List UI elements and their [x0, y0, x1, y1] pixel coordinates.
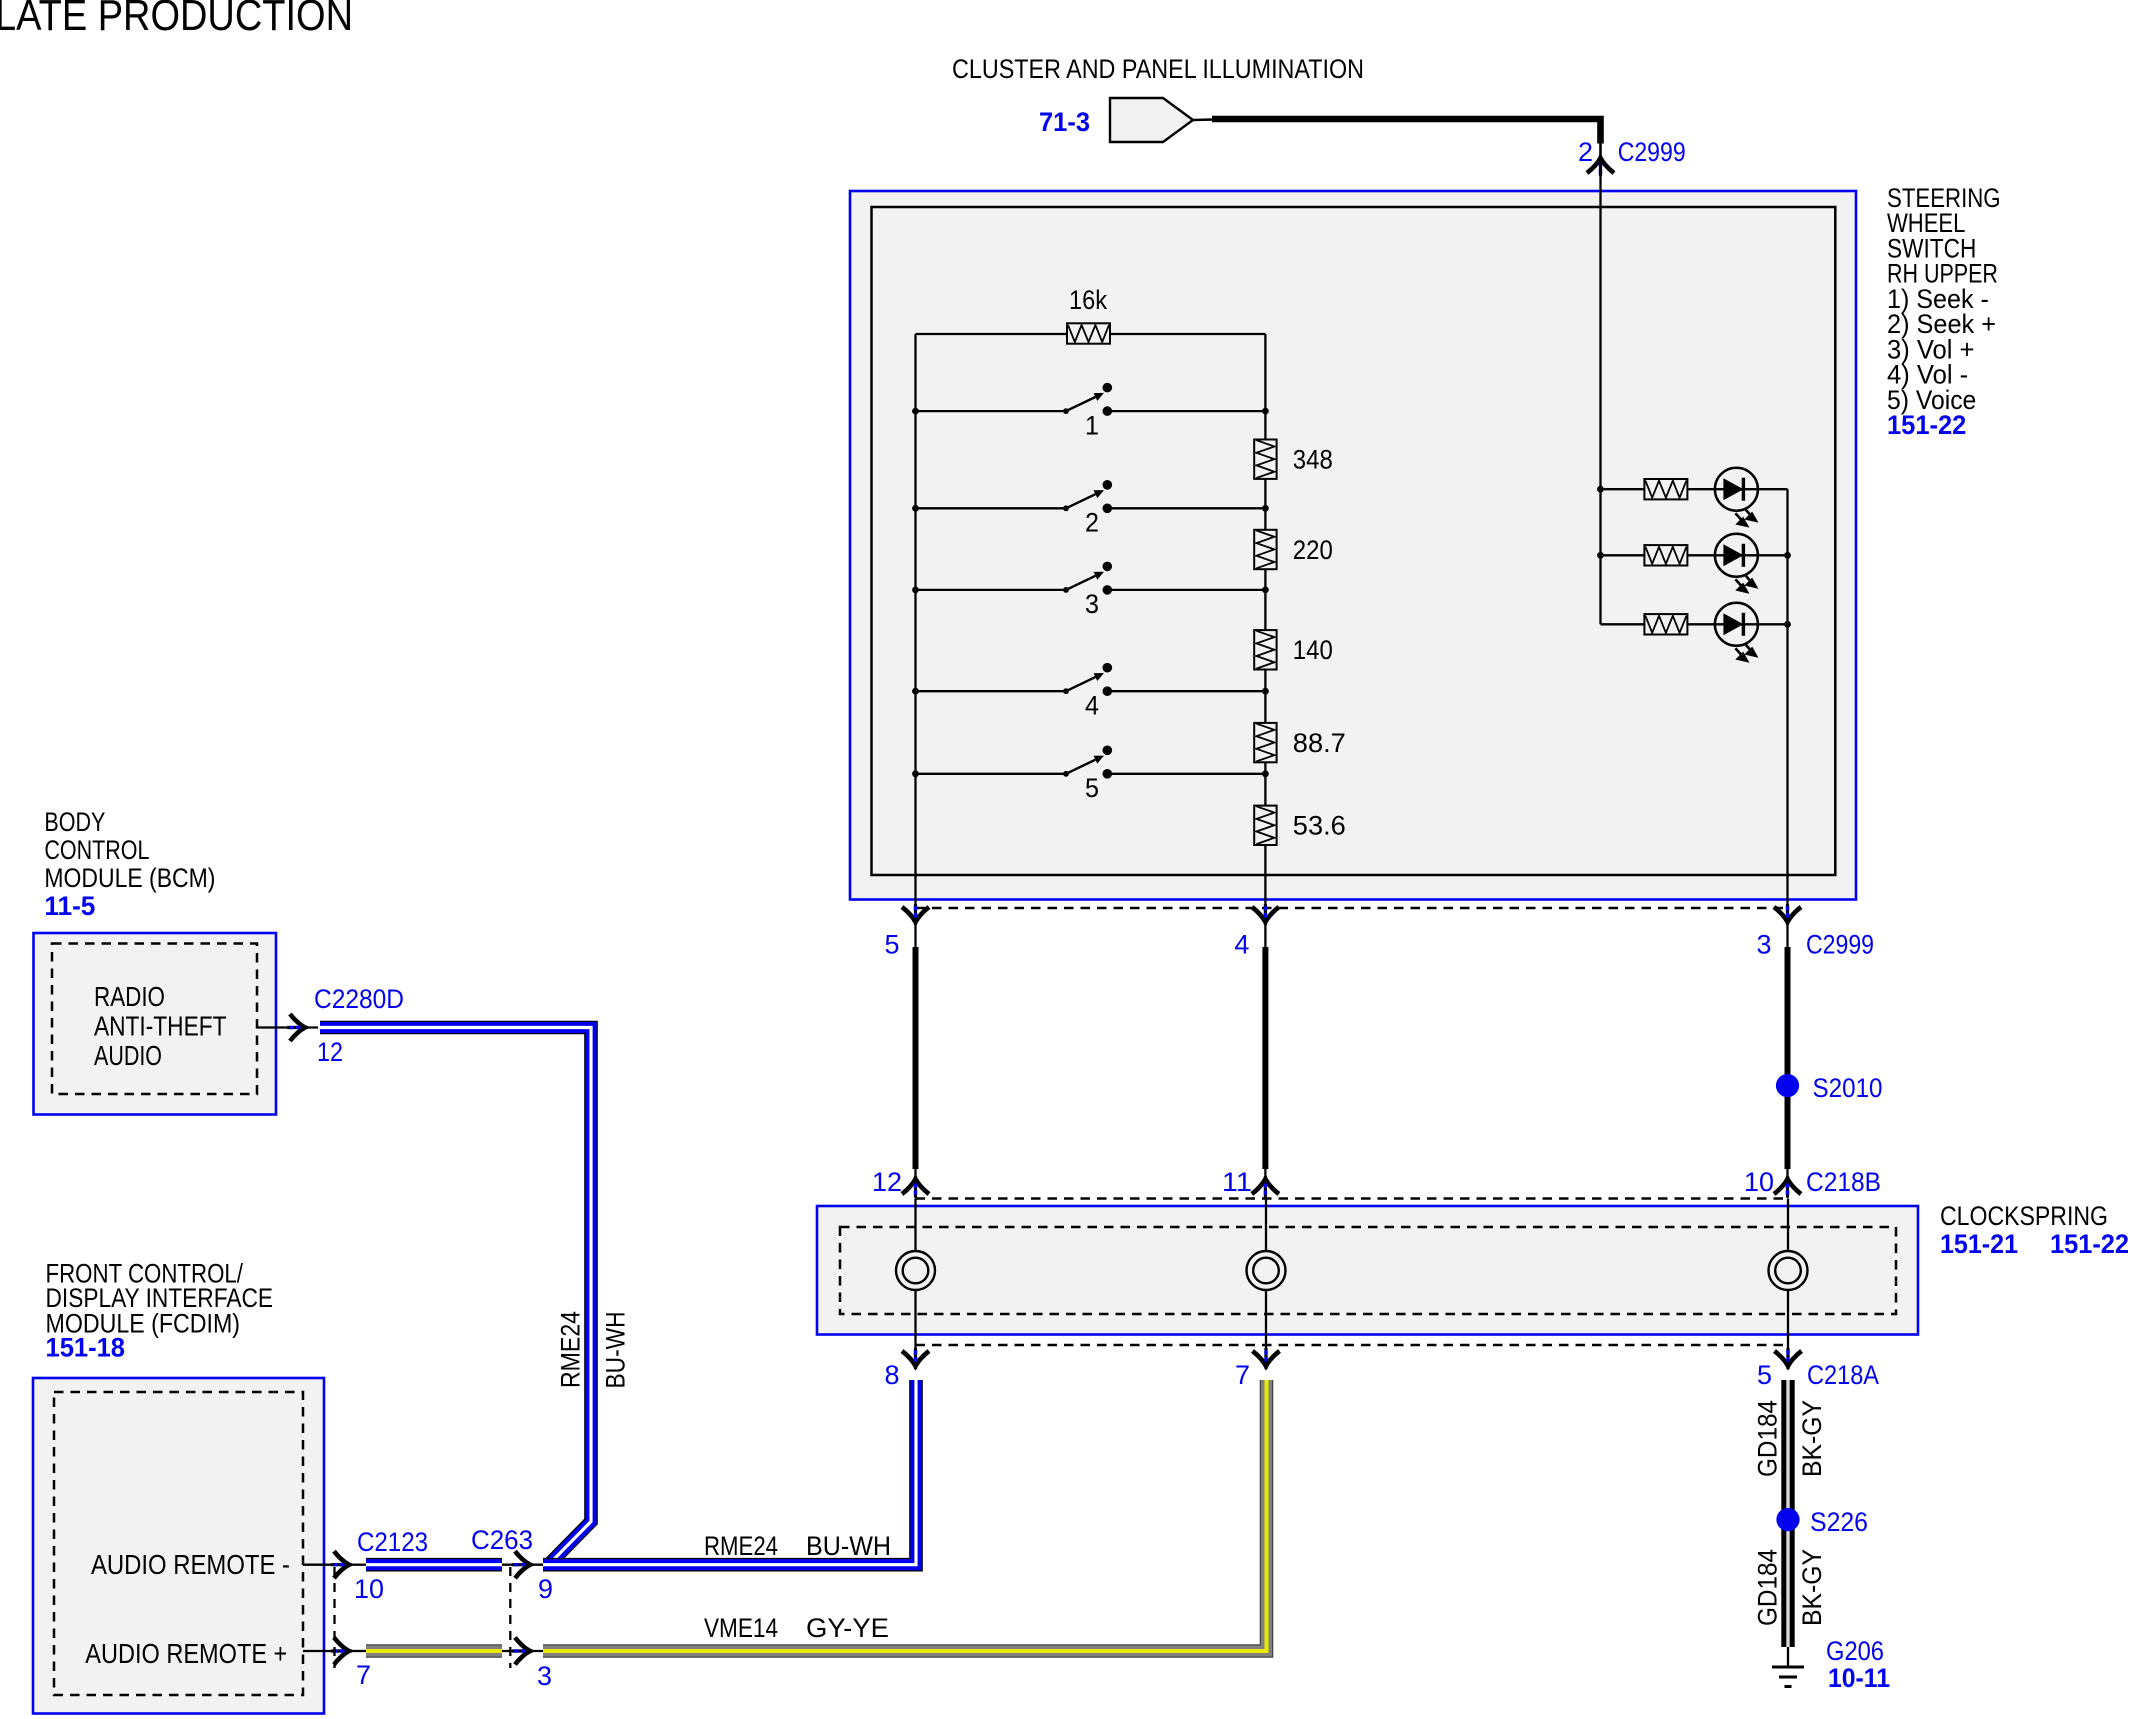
svg-text:BU-WH: BU-WH [600, 1312, 630, 1389]
wire: illumination feed vertical (from pin 2) [1599, 144, 1601, 625]
svg-text:GD184: GD184 [1753, 1400, 1783, 1477]
page reference 71-3 [1039, 107, 1090, 137]
BCM function label [94, 981, 227, 1071]
wire RME24 BU-WH (BCM to splice) [320, 1028, 591, 1563]
ground label G206 [1826, 1636, 1884, 1666]
steering wheel switch module box (inner) [872, 207, 1836, 875]
FCDIM pin label AUDIO REMOTE + [85, 1638, 287, 1669]
wire: LED row 2 [1601, 554, 1788, 556]
connector C218A pin 8 arrow [902, 1348, 929, 1369]
page reference 10-11 [1828, 1663, 1890, 1693]
svg-text:RADIO: RADIO [94, 981, 165, 1012]
body control module name [44, 807, 215, 893]
BCM box [34, 933, 277, 1115]
LED 2 (illumination) [1715, 534, 1758, 592]
splice S226 [1776, 1508, 1799, 1531]
LED 1 (illumination) [1715, 468, 1758, 526]
svg-text:11: 11 [1222, 1167, 1252, 1197]
svg-text:RME24: RME24 [556, 1311, 586, 1388]
wire circuit label RME24 (vertical) [556, 1311, 586, 1388]
clockspring module box [817, 1206, 1918, 1335]
svg-text:CLOCKSPRING: CLOCKSPRING [1940, 1201, 2108, 1231]
svg-text:12: 12 [872, 1167, 902, 1197]
wire VME14 GY-YE (C263 to clockspring pin 7) [527, 1380, 1267, 1651]
connector C2123 pin 10 arrow [331, 1551, 352, 1578]
BCM pin lead [257, 1026, 318, 1028]
svg-text:AUDIO: AUDIO [94, 1040, 162, 1071]
svg-text:7: 7 [356, 1660, 371, 1690]
svg-text:CONTROL: CONTROL [44, 835, 149, 865]
resistor 220 [1254, 530, 1333, 569]
connector C2999 pin 2 arrow [1587, 155, 1614, 176]
svg-text:3: 3 [1085, 589, 1099, 619]
svg-text:151-21: 151-21 [1940, 1229, 2018, 1259]
wire: LED row 3 [1601, 623, 1788, 625]
BCM inner dashed box (RADIO ANTI-THEFT AUDIO) [52, 944, 257, 1095]
svg-text:ANTI-THEFT: ANTI-THEFT [94, 1011, 227, 1042]
resistor (LED 3 series) [1644, 614, 1687, 634]
svg-text:1: 1 [1085, 410, 1099, 440]
svg-text:10: 10 [354, 1574, 384, 1604]
page reference 151-22 (switch) [1887, 410, 1966, 440]
FCDIM pin 7 lead [303, 1650, 366, 1652]
connector label C263 [471, 1525, 533, 1555]
connector C218B pin 12 arrow [902, 1176, 929, 1197]
svg-text:140: 140 [1293, 635, 1333, 665]
steering wheel switch module box (outer) [850, 191, 1856, 900]
wire color label BK-GY (upper) [1797, 1400, 1827, 1477]
connector C263 pin 3 arrow [512, 1638, 533, 1665]
svg-text:10-11: 10-11 [1828, 1663, 1890, 1693]
svg-text:2: 2 [1578, 137, 1593, 167]
pin number 5 (C2999 bottom) [885, 930, 900, 960]
connector C2999 pin 5 arrow [902, 904, 929, 925]
pin number 3 (C2999 bottom) [1757, 930, 1772, 960]
svg-text:VME14: VME14 [704, 1613, 778, 1643]
connector C2123 dashed link [333, 1567, 335, 1668]
connector C218A pin 5 arrow [1775, 1348, 1802, 1369]
connector C2280D arrow [287, 1014, 308, 1041]
wire RME24 BU-WH (C263 to clockspring pin 8) [527, 1380, 916, 1565]
pin number 10 (C218B) [1744, 1167, 1774, 1197]
svg-text:C263: C263 [471, 1525, 533, 1555]
wire: LED row 1 [1601, 488, 1788, 490]
svg-text:AUDIO REMOTE +: AUDIO REMOTE + [85, 1638, 287, 1669]
svg-text:MODULE (BCM): MODULE (BCM) [44, 863, 215, 893]
pin number 3 (C263) [537, 1661, 552, 1691]
switch position label 4 [1085, 690, 1099, 720]
svg-text:151-22: 151-22 [2050, 1229, 2129, 1259]
junction node LED row 1 [1597, 486, 1604, 493]
svg-text:5: 5 [1085, 773, 1099, 803]
pin number 7 (C2123) [356, 1660, 371, 1690]
page reference 151-22 (clockspring) [2050, 1229, 2129, 1259]
splice label S226 [1810, 1507, 1868, 1537]
wire: pin5-to-12 [914, 925, 916, 1198]
switch position label 2 [1085, 508, 1099, 538]
svg-text:16k: 16k [1069, 285, 1107, 315]
svg-text:AUDIO REMOTE -: AUDIO REMOTE - [91, 1549, 290, 1580]
off-page connector (to 71-3) [1110, 98, 1214, 142]
junction node LED row 2 [1597, 552, 1604, 559]
svg-text:RME24: RME24 [704, 1531, 778, 1561]
wire circuit label GD184 (lower) [1753, 1549, 1783, 1626]
svg-text:151-18: 151-18 [46, 1333, 126, 1363]
svg-text:53.6: 53.6 [1293, 811, 1346, 841]
svg-text:151-22: 151-22 [1887, 410, 1966, 440]
svg-text:4: 4 [1085, 690, 1099, 720]
resistor 16k [1067, 285, 1110, 344]
connector label C218B [1806, 1167, 1881, 1197]
connector label C2123 [357, 1527, 428, 1557]
connector C218A pin 7 arrow [1253, 1348, 1280, 1369]
svg-text:S226: S226 [1810, 1507, 1868, 1537]
pin number 12 (C2280D) [317, 1037, 343, 1067]
connector C2999 pin 4 arrow [1252, 904, 1279, 925]
connector label C218A [1807, 1360, 1879, 1390]
svg-text:G206: G206 [1826, 1636, 1884, 1666]
svg-text:3: 3 [1757, 930, 1772, 960]
wire: cluster illumination feed to C2999 pin 2 (thick) [1212, 119, 1601, 160]
switch 2 (steering wheel button 2) [912, 480, 1269, 513]
svg-text:C2123: C2123 [357, 1527, 428, 1557]
connector C218B dashed boundary [916, 1197, 1788, 1200]
connector C218A dashed boundary [916, 1344, 1788, 1347]
resistor (LED 2 series) [1644, 545, 1687, 565]
svg-text:10: 10 [1744, 1167, 1774, 1197]
ground G206 [1772, 1647, 1804, 1687]
svg-text:220: 220 [1293, 535, 1333, 565]
wire color label BU-WH (horizontal) [806, 1531, 891, 1561]
component name: STEERING WHEEL SWITCH RH UPPER [1887, 183, 2001, 415]
pin number 9 (C263) [538, 1574, 553, 1604]
svg-text:C2280D: C2280D [314, 984, 404, 1014]
svg-text:71-3: 71-3 [1039, 107, 1090, 137]
svg-text:4: 4 [1234, 930, 1249, 960]
wire: resistor ladder vertical (pin 4 net) [1264, 334, 1266, 905]
resistor (LED 1 series) [1644, 479, 1687, 499]
FCDIM inner dashed box [54, 1392, 303, 1695]
connector C2999 pin 3 arrow [1774, 904, 1801, 925]
pin number 11 (C218B) [1222, 1167, 1252, 1197]
resistor 140 [1254, 630, 1333, 669]
page reference 151-18 [46, 1333, 126, 1363]
switch 5 (steering wheel button 5) [912, 746, 1269, 779]
pin number 5 (C218A) [1757, 1360, 1772, 1390]
svg-text:C218B: C218B [1806, 1167, 1881, 1197]
clockspring coil [1769, 1199, 1808, 1364]
resistor 53.6 [1254, 806, 1346, 845]
svg-text:88.7: 88.7 [1293, 728, 1346, 758]
switch 1 (steering wheel button 1) [912, 383, 1269, 416]
svg-text:11-5: 11-5 [44, 891, 95, 921]
connector label C2280D [314, 984, 404, 1014]
svg-text:S2010: S2010 [1813, 1073, 1883, 1103]
connector label C2999 (bottom) [1806, 930, 1874, 960]
wire color label GY-YE [806, 1613, 889, 1643]
resistor 348 [1254, 440, 1333, 479]
connector C2999 dashed boundary [916, 907, 1788, 910]
clockspring coil [896, 1199, 935, 1364]
svg-text:12: 12 [317, 1037, 343, 1067]
svg-text:LATE PRODUCTION: LATE PRODUCTION [0, 0, 353, 40]
pin number 10 (C2123) [354, 1574, 384, 1604]
pin number 7 (C218A) [1235, 1360, 1250, 1390]
wire VME14 GY-YE (C2123 to C263 segment) [366, 1644, 527, 1658]
component name CLOCKSPRING [1940, 1201, 2108, 1231]
svg-text:BK-GY: BK-GY [1797, 1549, 1827, 1626]
node label: CLUSTER AND PANEL ILLUMINATION [952, 54, 1364, 84]
svg-text:5: 5 [885, 930, 900, 960]
FCDIM pin label AUDIO REMOTE - [91, 1549, 290, 1580]
wire color label BK-GY (lower) [1797, 1549, 1827, 1626]
splice S2010 [1776, 1074, 1799, 1097]
FCDIM box [33, 1378, 324, 1714]
svg-text:GD184: GD184 [1753, 1549, 1783, 1626]
switch 4 (steering wheel button 4) [912, 663, 1269, 696]
connector C2123 pin 7 arrow [331, 1638, 352, 1665]
FCDIM pin 10 lead [303, 1564, 366, 1566]
wire circuit label VME14 [704, 1613, 778, 1643]
wire: pin3-to-10 [1786, 925, 1788, 1198]
wire: pin4-to-11 [1264, 925, 1266, 1198]
switch position label 1 [1085, 410, 1099, 440]
wire GD184 BK-GY (clockspring pin 5 to ground) [1781, 1380, 1794, 1647]
svg-text:5: 5 [1757, 1360, 1772, 1390]
connector label C2999 (top) [1618, 137, 1686, 167]
connector C263 dashed link [509, 1567, 511, 1668]
svg-text:C218A: C218A [1807, 1360, 1879, 1390]
svg-text:BU-WH: BU-WH [806, 1531, 891, 1561]
wire: LED return vertical (pin 3 net) [1784, 489, 1791, 905]
wire color label BU-WH (vertical) [600, 1312, 630, 1389]
connector C263 pin 9 arrow [512, 1551, 533, 1578]
title: LATE PRODUCTION [0, 0, 353, 40]
page reference 151-21 [1940, 1229, 2018, 1259]
svg-text:9: 9 [538, 1574, 553, 1604]
page reference 11-5 [44, 891, 95, 921]
pin number 2 (C2999) [1578, 137, 1593, 167]
splice label S2010 [1813, 1073, 1883, 1103]
LED 3 (illumination) [1715, 603, 1758, 661]
svg-text:C2999: C2999 [1806, 930, 1874, 960]
switch position label 5 [1085, 773, 1099, 803]
front control display interface module name [46, 1259, 274, 1339]
svg-text:CLUSTER AND PANEL ILLUMINATION: CLUSTER AND PANEL ILLUMINATION [952, 54, 1364, 84]
wire circuit label GD184 (upper) [1753, 1400, 1783, 1477]
connector C218B pin 11 arrow [1252, 1176, 1279, 1197]
svg-text:C2999: C2999 [1618, 137, 1686, 167]
wire: top interconnect [916, 333, 1266, 335]
pin number 4 (C2999 bottom) [1234, 930, 1249, 960]
connector C218B pin 10 arrow [1774, 1176, 1801, 1197]
resistor 88.7 [1254, 723, 1346, 762]
wire circuit label RME24 (horizontal) [704, 1531, 778, 1561]
wire: switch common vertical (pin 5 net) [914, 334, 916, 905]
svg-text:7: 7 [1235, 1360, 1250, 1390]
clockspring inner dashed box [840, 1227, 1896, 1314]
clockspring coil [1247, 1199, 1286, 1364]
svg-text:3: 3 [537, 1661, 552, 1691]
svg-text:2: 2 [1085, 508, 1099, 538]
svg-text:348: 348 [1293, 445, 1333, 475]
pin number 8 (C218A) [885, 1360, 900, 1390]
wire RME24 BU-WH (C2123 to C263 segment) [366, 1558, 527, 1572]
pin number 12 (C218B) [872, 1167, 902, 1197]
switch 3 (steering wheel button 3) [912, 562, 1269, 595]
svg-text:BODY: BODY [44, 807, 105, 837]
switch position label 3 [1085, 589, 1099, 619]
svg-text:GY-YE: GY-YE [806, 1613, 889, 1643]
svg-text:8: 8 [885, 1360, 900, 1390]
svg-text:BK-GY: BK-GY [1797, 1400, 1827, 1477]
